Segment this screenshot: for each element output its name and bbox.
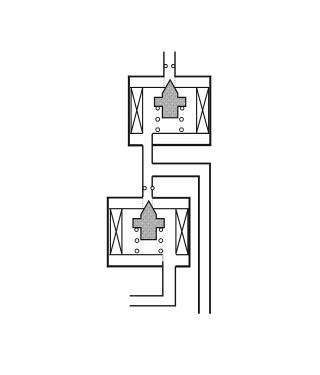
lower chamber right cross-braced wall box (176, 209, 188, 255)
valve V1 (gray hydrant body in upper chamber) (155, 80, 186, 118)
lower chamber left cross-braced wall box (110, 209, 122, 255)
lower chamber bottom slab edge (gap at outlet pipe) (107, 265, 163, 267)
valve V2 (gray hydrant body in lower chamber) (133, 201, 164, 240)
drop pipe between chambers, left wall (142, 145, 144, 197)
lower chamber right wall (189, 197, 191, 267)
upper chamber left wall (128, 76, 130, 147)
lower chamber left wall (107, 197, 109, 268)
upper chamber floor line (gap at drop pipe) (130, 132, 143, 134)
valve V2 flange bolt circles row 2 (135, 249, 163, 253)
lower chamber roof slab bottom line (109, 208, 188, 210)
valve V1 flange bolt circles row 2 (156, 128, 184, 132)
valve V1 flange bolt circles row 1 (156, 117, 184, 121)
upper chamber bottom slab edge (gap at drop pipe) (128, 144, 143, 146)
hidden pipe walls through upper chamber roof (gray dashed) (164, 77, 175, 87)
branch pipe tee going right then down, outer wall (152, 164, 210, 314)
upper chamber right cross-braced wall box (197, 87, 209, 132)
flange bolt circles on drop pipe (143, 187, 154, 190)
upper chamber roof slab bottom line (130, 86, 209, 88)
outlet pipe hidden wall through lower slab (gray) (162, 255, 164, 262)
upper chamber right wall (209, 76, 211, 146)
top supply pipe (vertical, entering upper chamber) (164, 52, 175, 78)
lower chamber floor line (gap at outlet pipe) (109, 254, 163, 256)
hidden pipe walls through lower chamber roof (gray dashed) (143, 198, 152, 209)
upper chamber U1 (128, 76, 211, 147)
valve V1 wing bolt circles (156, 107, 184, 110)
valve V2 flange bolt circles row 1 (135, 239, 163, 243)
drop pipe between chambers, right wall (gap at branch tee) (151, 134, 153, 197)
lower chamber roof slab top edge (gap at drop pipe) (107, 197, 143, 199)
lower chamber U2 (107, 197, 191, 268)
upper chamber roof slab top edge (gap at pipe) (128, 76, 164, 78)
outlet pipe elbow inner wall (down then left) (130, 262, 163, 296)
flange bolt circles on top supply pipe (164, 65, 175, 68)
valve V2 wing bolt circles (135, 228, 163, 231)
outlet pipe elbow outer wall (down then left) (130, 266, 176, 305)
branch pipe tee going right then down, inner wall (152, 176, 199, 313)
upper chamber left cross-braced wall box (131, 87, 143, 133)
